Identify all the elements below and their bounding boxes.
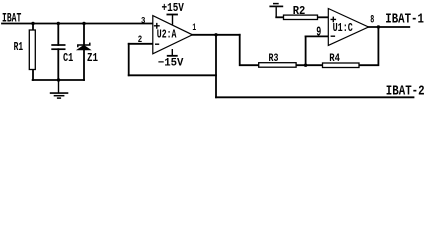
wire R1 bottom lead bbox=[32, 70, 34, 81]
svg-text:R4: R4 bbox=[329, 53, 340, 65]
svg-text:3: 3 bbox=[141, 15, 146, 26]
wire C1 top lead bbox=[57, 24, 59, 46]
power -15V bbox=[158, 49, 184, 70]
resistor R2 bbox=[284, 4, 318, 19]
resistor R4 bbox=[323, 53, 360, 68]
node junction dot R3 R4 pin9 bbox=[304, 63, 307, 66]
svg-text:R3: R3 bbox=[269, 53, 279, 65]
wire R1 top lead bbox=[32, 24, 34, 31]
svg-text:−15V: −15V bbox=[158, 58, 184, 70]
wire U2:A pin2 bbox=[129, 43, 153, 45]
wire U1:C output to IBAT-1 bbox=[369, 26, 410, 28]
op-amp U1:C bbox=[328, 9, 368, 46]
svg-text:R1: R1 bbox=[14, 40, 24, 54]
svg-text:1: 1 bbox=[192, 22, 196, 34]
wire feedback left riser bbox=[128, 44, 130, 76]
svg-text:IBAT-2: IBAT-2 bbox=[386, 84, 425, 100]
svg-text:R2: R2 bbox=[293, 4, 306, 18]
wire bottom IBAT-2 bbox=[216, 96, 414, 98]
svg-text:Z1: Z1 bbox=[87, 51, 98, 65]
wire R4 right end riser to output bbox=[359, 27, 378, 65]
ground bar above R2 bbox=[269, 4, 283, 18]
svg-text:IBAT-1: IBAT-1 bbox=[385, 11, 424, 27]
svg-text:2: 2 bbox=[138, 34, 142, 45]
svg-text:U2:A: U2:A bbox=[157, 28, 177, 42]
power +15V bbox=[162, 1, 185, 25]
wire top net IBAT to U2:A pin3 bbox=[2, 23, 153, 25]
svg-text:IBAT: IBAT bbox=[2, 11, 22, 26]
node junction dot U1:C output bbox=[377, 25, 380, 28]
wire corner down to R3 bbox=[240, 35, 259, 65]
svg-text:C1: C1 bbox=[63, 51, 73, 65]
wire bottom of R1 C1 Z1 bbox=[33, 79, 84, 81]
wire feedback horizontal bbox=[129, 74, 216, 76]
svg-text:9: 9 bbox=[316, 26, 321, 41]
svg-text:8: 8 bbox=[370, 15, 374, 27]
wire R2 right to U1:C plus input bbox=[318, 16, 329, 18]
zener diode Z1 bbox=[77, 43, 98, 65]
wire pin9 into U1:C bbox=[306, 35, 329, 37]
ground earth below C1 bbox=[50, 80, 69, 98]
capacitor C1 bbox=[51, 45, 73, 65]
svg-text:U1:C: U1:C bbox=[333, 21, 353, 35]
resistor R1 bbox=[14, 30, 36, 70]
wire Z1 top lead bbox=[83, 24, 85, 45]
op-amp U2:A bbox=[153, 16, 193, 54]
wire node riser up to pin9 bbox=[305, 36, 307, 65]
resistor R3 bbox=[259, 53, 296, 67]
wire C1 bottom lead bbox=[57, 49, 59, 80]
svg-text:+15V: +15V bbox=[162, 1, 185, 15]
wire Z1 bottom lead bbox=[83, 50, 85, 80]
wire R2 left to ground stem bbox=[276, 16, 283, 18]
wire U2:A output bbox=[192, 34, 239, 36]
wire feedback output riser down to IBAT-2 bbox=[215, 35, 217, 98]
node junction dots top wire R1 C1 Z1 bbox=[31, 22, 380, 82]
node junction dot U2:A output bbox=[214, 33, 217, 36]
node junction dot ground stem bbox=[57, 78, 60, 81]
wire R3 right to node and R4 bbox=[296, 64, 322, 66]
